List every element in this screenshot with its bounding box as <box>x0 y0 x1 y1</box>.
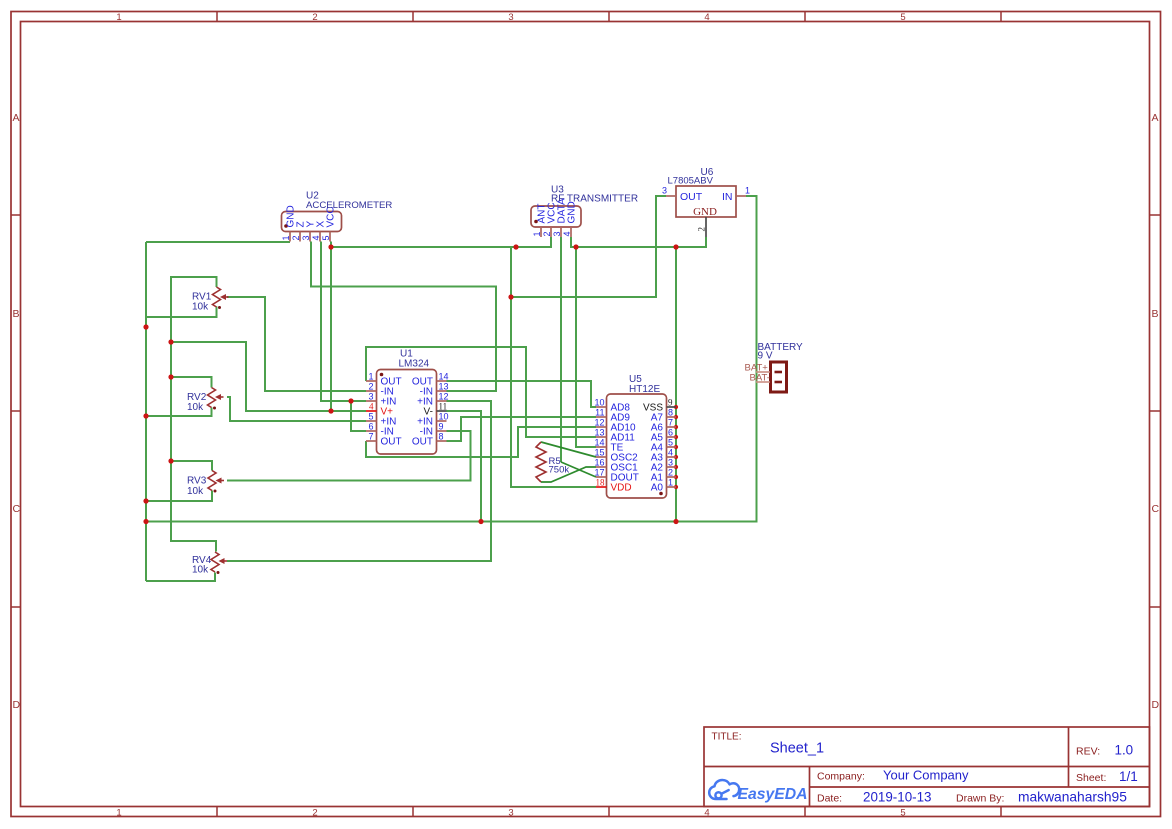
svg-text:6: 6 <box>668 428 673 438</box>
svg-text:11: 11 <box>595 408 604 418</box>
potentiometer RV3 10k <box>208 471 216 491</box>
wire U2 Y pin3 to U1 pin13 <box>311 242 496 392</box>
svg-text:1: 1 <box>532 231 542 236</box>
svg-text:2: 2 <box>697 227 707 232</box>
svg-text:4: 4 <box>369 402 374 412</box>
svg-text:Sheet:: Sheet: <box>1076 772 1106 784</box>
U2 pin names GND Z Y X VCC <box>286 205 337 227</box>
wire RV1 wiper to U1 pin2 <box>227 297 366 391</box>
svg-text:GND: GND <box>567 201 578 223</box>
U6 pin2 stub <box>705 217 707 237</box>
svg-text:17: 17 <box>594 468 604 478</box>
svg-text:3: 3 <box>668 458 673 468</box>
svg-text:OUT: OUT <box>412 437 433 448</box>
U1 right pin numbers 14-8 <box>439 372 449 442</box>
svg-text:L7805ABV: L7805ABV <box>668 176 714 187</box>
wire U1 pin8 to U5 pin11 <box>447 417 597 441</box>
svg-text:8: 8 <box>439 432 444 442</box>
svg-text:13: 13 <box>594 428 604 438</box>
svg-text:Company:: Company: <box>817 771 865 783</box>
svg-text:15: 15 <box>594 448 604 458</box>
wire RV3 top tap <box>171 461 212 471</box>
svg-text:A: A <box>1152 112 1159 124</box>
svg-text:HT12E: HT12E <box>629 384 660 395</box>
wire RV2 top tap <box>171 377 212 388</box>
frame column numbers bottom <box>116 808 905 819</box>
op-amp U2 ACCELEROMETER body <box>282 212 342 232</box>
U3 pin1 marker <box>534 220 538 224</box>
svg-text:IN: IN <box>722 191 733 203</box>
svg-text:18: 18 <box>596 478 606 488</box>
frame column ticks top <box>217 12 1001 22</box>
svg-text:BAT-: BAT- <box>750 373 770 384</box>
svg-text:3: 3 <box>508 12 513 23</box>
U2 pin numbers 1-5 <box>281 235 331 240</box>
potentiometer RV2 10k <box>208 388 216 408</box>
svg-text:VDD: VDD <box>611 483 632 494</box>
wire RV3 bottom to rail <box>146 491 212 502</box>
svg-text:14: 14 <box>439 372 449 382</box>
svg-text:8: 8 <box>668 408 673 418</box>
U2 pin1 marker <box>284 224 288 228</box>
svg-text:2: 2 <box>312 808 317 819</box>
svg-text:RF TRANSMITTER: RF TRANSMITTER <box>551 194 638 205</box>
wire RV1 bottom to rail <box>146 307 217 318</box>
svg-text:Your Company: Your Company <box>883 768 969 783</box>
svg-text:5: 5 <box>900 808 905 819</box>
svg-text:C: C <box>1152 503 1160 515</box>
U1 left pin numbers 1-7 <box>368 372 374 442</box>
svg-text:1: 1 <box>116 808 121 819</box>
U6 pin3 stub <box>666 195 676 197</box>
U3 pin numbers 1-4 <box>532 231 572 236</box>
wire VCC rail y=247 to U3 pin2 <box>331 237 551 247</box>
wire U1 pin11 V- to ground bus <box>447 411 482 522</box>
U1 pin1 marker <box>380 373 384 377</box>
wire left ground rail x=146 <box>145 242 147 581</box>
svg-text:16: 16 <box>594 458 604 468</box>
U2 pin stubs 1-5 <box>290 232 330 242</box>
svg-text:Drawn By:: Drawn By: <box>956 793 1004 805</box>
frame row letters right <box>1152 112 1160 711</box>
wire U2 VCC pin5 drop <box>330 242 332 412</box>
wire U6 OUT to VDD node <box>511 196 666 297</box>
wire R5 bottom to U5 OSC1 <box>541 467 596 482</box>
svg-text:1/1: 1/1 <box>1119 769 1138 784</box>
EasyEDA logo cloud <box>709 780 739 799</box>
svg-text:14: 14 <box>594 438 604 448</box>
svg-text:6: 6 <box>368 422 373 432</box>
op-amp U1 LM324 body <box>377 370 437 455</box>
wire RV2 bottom to rail <box>146 408 212 417</box>
wire U1 pin7 to U5 pin12 <box>366 427 596 457</box>
svg-text:10k: 10k <box>192 302 209 313</box>
wire RV3 wiper to U1 pin9 <box>227 431 471 481</box>
svg-text:2019-10-13: 2019-10-13 <box>863 790 932 805</box>
U3 pin stubs 1-4 <box>541 227 571 237</box>
svg-text:D: D <box>13 699 21 711</box>
svg-text:A: A <box>13 112 20 124</box>
battery pin stubs <box>756 371 770 373</box>
wire RV4 bottom to rail <box>146 573 215 582</box>
svg-text:TITLE:: TITLE: <box>712 732 742 743</box>
wire RV4 wiper to U1 pin12 <box>227 401 491 561</box>
transmitter U3 body <box>531 206 581 227</box>
svg-text:3: 3 <box>368 392 373 402</box>
U5 pin stubs right 9-1 <box>667 407 677 487</box>
potentiometer RV1 10k <box>213 287 221 307</box>
frame row ticks left <box>11 215 21 607</box>
U5 right pin names <box>643 403 663 494</box>
regulator U6 body <box>676 186 736 217</box>
wire V+ rail x=171 with RV1/RV4 taps <box>171 277 217 552</box>
svg-text:1: 1 <box>281 235 291 240</box>
svg-text:5: 5 <box>900 12 905 23</box>
svg-text:Date:: Date: <box>817 793 842 805</box>
svg-text:makwanaharsh95: makwanaharsh95 <box>1018 790 1127 805</box>
svg-text:10k: 10k <box>187 486 204 497</box>
junction dots U5 address pins <box>674 405 678 489</box>
svg-text:D: D <box>1152 699 1160 711</box>
svg-text:2: 2 <box>312 12 317 23</box>
svg-text:B: B <box>13 308 20 320</box>
U3 pin names ANT VCC DATA GND <box>537 198 578 224</box>
battery minus bar <box>775 381 783 384</box>
battery plus bar <box>775 371 783 374</box>
wire VDD drop x=511 to U5 pin18 <box>511 247 596 487</box>
frame column ticks bottom <box>217 807 1001 817</box>
U5 left pin numbers 10-18 <box>594 398 605 488</box>
svg-text:9 V: 9 V <box>758 351 773 362</box>
svg-text:1: 1 <box>116 12 121 23</box>
svg-text:750k: 750k <box>549 465 570 476</box>
svg-text:1: 1 <box>745 186 750 196</box>
svg-text:9: 9 <box>668 398 673 408</box>
svg-text:7: 7 <box>368 432 373 442</box>
frame row letters left <box>13 112 21 711</box>
battery BATTERY 9V symbol <box>771 362 787 392</box>
wire address bus rail x=676 <box>675 247 677 522</box>
wire U1 pin1 to U5 pin13 <box>366 347 596 437</box>
frame column numbers top <box>116 12 905 23</box>
U1 pin stubs right 14-8 <box>437 381 447 441</box>
title block outline <box>704 727 1150 807</box>
svg-text:Sheet_1: Sheet_1 <box>770 741 824 757</box>
wire bottom ground bus y=521 to battery column <box>146 196 757 522</box>
svg-text:LM324: LM324 <box>399 359 430 370</box>
svg-text:7: 7 <box>668 418 673 428</box>
wire U1 pin14 to U5 pin10 <box>447 381 597 407</box>
potentiometer RV4 10k <box>211 552 219 572</box>
svg-text:4: 4 <box>704 808 709 819</box>
svg-text:1.0: 1.0 <box>1115 743 1134 758</box>
svg-text:12: 12 <box>594 418 604 428</box>
wire R5 top diagonal to U5 OSC2 <box>541 442 596 457</box>
svg-text:ACCELEROMETER: ACCELEROMETER <box>306 200 392 211</box>
svg-text:4: 4 <box>704 12 709 23</box>
svg-text:EasyEDA: EasyEDA <box>738 786 808 803</box>
frame row ticks right <box>1150 215 1161 607</box>
svg-text:REV:: REV: <box>1076 746 1100 758</box>
resistor R5 750k <box>536 442 546 482</box>
svg-text:11: 11 <box>439 402 448 412</box>
svg-text:2: 2 <box>668 468 673 478</box>
svg-text:10: 10 <box>439 412 449 422</box>
svg-text:13: 13 <box>439 382 449 392</box>
wire TE drop x=576 to U5 pin14 <box>576 247 596 447</box>
svg-text:4: 4 <box>562 231 572 236</box>
wire branch node to U1 pin6 <box>351 401 366 431</box>
wire DATA diagonal to U5 DOUT <box>561 462 596 477</box>
U5 pin1 marker <box>659 492 663 496</box>
wire GND rail y=247 to U6 GND <box>576 237 706 247</box>
svg-text:B: B <box>1152 308 1159 320</box>
wire V+ branch to U1 pin4 <box>171 342 366 411</box>
svg-text:4: 4 <box>668 448 673 458</box>
wire RV2 wiper to U1 pin5 <box>227 397 366 421</box>
svg-text:3: 3 <box>301 235 311 240</box>
svg-text:1: 1 <box>668 478 673 488</box>
svg-text:GND: GND <box>693 206 717 218</box>
wire U3 DATA drop <box>560 237 562 462</box>
svg-text:1: 1 <box>368 372 373 382</box>
U5 right pin numbers 9-1 <box>668 398 673 488</box>
U1 pin stubs left 1-7 <box>366 381 377 441</box>
svg-text:3: 3 <box>552 231 562 236</box>
svg-text:9: 9 <box>439 422 444 432</box>
svg-text:5: 5 <box>368 412 373 422</box>
svg-text:10k: 10k <box>187 402 204 413</box>
U1 left pin names <box>381 377 402 448</box>
svg-text:OUT: OUT <box>381 437 402 448</box>
U1 right pin names <box>412 377 433 448</box>
U5 left pin names <box>611 403 639 494</box>
svg-text:2: 2 <box>291 235 301 240</box>
svg-text:2: 2 <box>368 382 373 392</box>
svg-text:3: 3 <box>508 808 513 819</box>
U6 pin1 stub <box>736 195 746 197</box>
svg-text:A0: A0 <box>651 483 664 494</box>
wire U2 GND pin1 to left rail <box>146 241 290 243</box>
svg-text:OUT: OUT <box>680 191 703 203</box>
svg-text:10: 10 <box>594 398 604 408</box>
wire U2 X pin4 to U1 pin3 <box>321 242 366 402</box>
encoder U5 HT12E body <box>607 394 667 498</box>
junction dots <box>143 244 678 524</box>
svg-text:5: 5 <box>668 438 673 448</box>
U5 pin stubs left 10-18 <box>596 407 607 487</box>
wire U3 GND pin4 to GND rail <box>571 237 576 247</box>
svg-text:10k: 10k <box>192 565 209 576</box>
svg-text:C: C <box>13 503 21 515</box>
svg-text:5: 5 <box>321 235 331 240</box>
svg-text:2: 2 <box>542 231 552 236</box>
svg-text:RV3: RV3 <box>187 476 207 487</box>
svg-text:3: 3 <box>662 186 667 196</box>
svg-text:4: 4 <box>311 235 321 240</box>
svg-text:12: 12 <box>439 392 449 402</box>
